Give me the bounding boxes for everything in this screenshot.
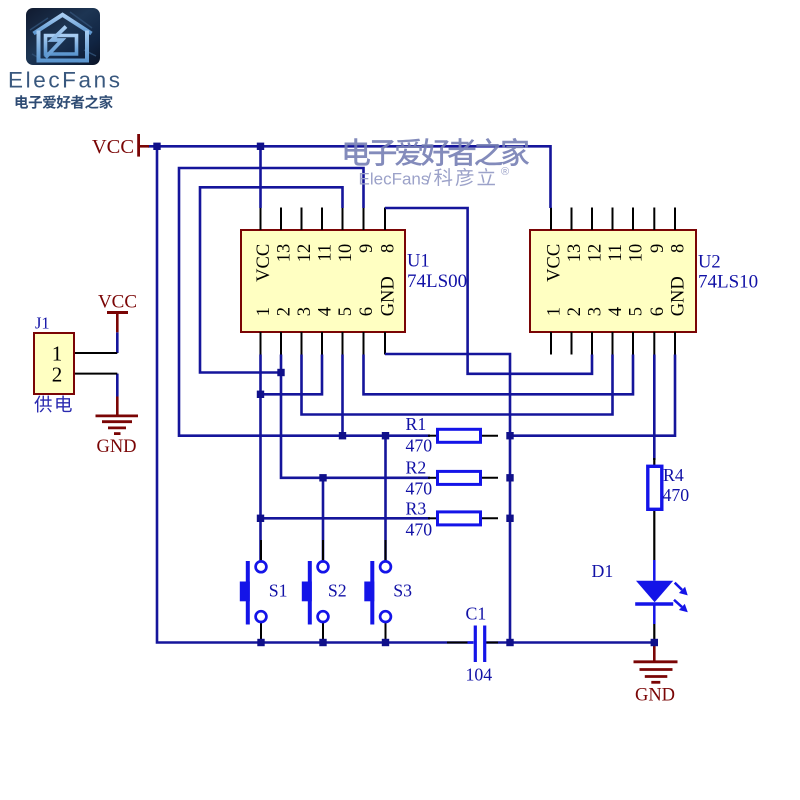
- svg-text:C1: C1: [466, 604, 487, 624]
- svg-text:5: 5: [627, 307, 647, 316]
- wire J1 pin1 to VCC: [116, 332, 119, 353]
- wire U1 pin2 to R2 left: [281, 355, 430, 478]
- wire J1 pin2 to GND: [116, 374, 119, 397]
- U1 top pin stub 10: [342, 208, 344, 231]
- svg-text:13: 13: [275, 244, 295, 262]
- U1 top pin stub 8: [384, 208, 386, 231]
- U2 bottom pin stub 1: [550, 332, 552, 355]
- GND symbol at D1: [653, 643, 656, 662]
- svg-text:470: 470: [406, 520, 433, 540]
- junction VCC rail left: [153, 143, 160, 150]
- svg-text:1: 1: [254, 307, 274, 316]
- svg-text:VCC: VCC: [92, 136, 134, 158]
- U2 top pin stub VCC: [550, 208, 552, 231]
- U2 bottom pin stub GND: [674, 332, 676, 355]
- resistor R4: [648, 466, 662, 509]
- svg-text:GND: GND: [379, 276, 399, 316]
- U2 top pin stub 9: [653, 208, 655, 231]
- svg-text:6: 6: [357, 307, 377, 316]
- junction D1 bus: [651, 639, 658, 646]
- junction pin10-pin2: [277, 369, 284, 376]
- S1 top pin: [260, 540, 262, 562]
- junction VCC rail U1: [257, 143, 264, 150]
- logo house icon: [34, 15, 92, 34]
- junction pin1-pin4: [257, 391, 264, 398]
- svg-text:GND: GND: [96, 437, 136, 457]
- U1 top pin stub 9: [363, 208, 365, 231]
- svg-text:2: 2: [565, 307, 585, 316]
- C1 left pin: [447, 642, 474, 644]
- D1 light arrow 1: [675, 583, 682, 590]
- IC U2 74LS10: [530, 230, 696, 332]
- junction S1 bus: [257, 639, 264, 646]
- svg-text:12: 12: [586, 244, 606, 262]
- svg-text:R2: R2: [406, 458, 427, 478]
- svg-text:5: 5: [336, 307, 356, 316]
- svg-text:104: 104: [466, 665, 493, 685]
- R1 right pin: [481, 435, 499, 437]
- U2 top pin stub 11: [612, 208, 614, 231]
- wire S2 drop: [322, 478, 325, 562]
- switch S1: [256, 561, 267, 572]
- J1 pin1: [74, 352, 117, 354]
- junction C1 right: [506, 639, 513, 646]
- junction pin5-R1: [339, 432, 346, 439]
- wire U1 GND to ground bus: [385, 354, 510, 643]
- svg-text:VCC: VCC: [254, 244, 274, 282]
- junction R3 right: [506, 515, 513, 522]
- U1 top pin stub 12: [301, 208, 303, 231]
- wire U1 pin3 to U2 pin4: [302, 355, 613, 415]
- U2 bottom pin stub 2: [571, 332, 573, 355]
- svg-text:470: 470: [663, 485, 690, 505]
- wire U1 pin1 down to S1: [259, 355, 262, 562]
- svg-text:3: 3: [295, 307, 315, 316]
- switch S3: [380, 561, 391, 572]
- svg-text:8: 8: [669, 244, 689, 253]
- S3 bottom pin: [385, 622, 387, 643]
- D1 cathode pin: [653, 624, 655, 643]
- U2 top pin stub 8: [674, 208, 676, 231]
- wire R3 left from pin1 column: [261, 517, 431, 520]
- J1 label chinese gongdian: [34, 396, 51, 413]
- svg-text:VCC: VCC: [545, 244, 565, 282]
- wire U1 pin9 to R1 left: [179, 168, 430, 436]
- wire VCC drop to U1 VCC: [259, 146, 262, 208]
- wire C1 right to D1 ground node: [485, 641, 655, 644]
- svg-text:4: 4: [606, 307, 626, 316]
- S2 bottom pin: [322, 622, 324, 643]
- svg-text:8: 8: [379, 244, 399, 253]
- C1 right pin: [487, 642, 499, 644]
- junction R2 right: [506, 474, 513, 481]
- U2 bottom pin stub 6: [653, 332, 655, 355]
- svg-text:/: /: [427, 170, 432, 189]
- svg-text:ElecFans: ElecFans: [359, 170, 430, 189]
- capacitor C1: [474, 626, 477, 663]
- LED D1: [636, 581, 673, 603]
- U1 bottom pin stub 1: [260, 332, 262, 355]
- svg-text:GND: GND: [669, 276, 689, 316]
- svg-text:R3: R3: [406, 499, 427, 519]
- svg-text:4: 4: [316, 307, 336, 316]
- R3 right pin: [481, 517, 499, 519]
- wire S3 drop: [384, 436, 387, 562]
- resistor R1: [438, 429, 481, 442]
- resistor R2: [438, 471, 481, 484]
- U1 top pin stub 11: [321, 208, 323, 231]
- J1 pin2: [74, 373, 117, 375]
- U2 top pin stub 13: [571, 208, 573, 231]
- svg-text:1: 1: [545, 307, 565, 316]
- svg-text:10: 10: [627, 244, 647, 262]
- U2 top pin stub 10: [632, 208, 634, 231]
- wire D1 cathode down: [653, 604, 656, 624]
- U2 top pin stub 12: [591, 208, 593, 231]
- svg-text:®: ®: [501, 166, 509, 178]
- wire U1 pin6 to U2 pin5: [364, 355, 634, 395]
- svg-text:R4: R4: [663, 465, 684, 485]
- R4 bottom pin: [653, 510, 655, 561]
- wire U1 pin5 to R1 row: [341, 355, 344, 436]
- svg-text:13: 13: [565, 244, 585, 262]
- U2 bottom pin stub 3: [591, 332, 593, 355]
- svg-text:2: 2: [52, 363, 63, 387]
- wire VCC left rail to bottom bus: [157, 146, 474, 642]
- R1 left pin: [428, 435, 438, 437]
- VCC power symbol at J1: [107, 311, 128, 314]
- svg-text:74LS00: 74LS00: [407, 271, 467, 292]
- junction R3 tee: [257, 515, 264, 522]
- junction S2 bus: [319, 639, 326, 646]
- wire R4 to D1: [653, 560, 656, 581]
- wire U1 pin4 to pin1 column: [261, 355, 323, 395]
- D1 light arrow 2: [674, 600, 682, 607]
- U2 bottom pin stub 5: [632, 332, 634, 355]
- switch S2: [318, 561, 329, 572]
- U1 bottom pin stub 4: [321, 332, 323, 355]
- svg-text:S1: S1: [269, 581, 288, 601]
- svg-text:U2: U2: [698, 253, 721, 273]
- svg-text:ElecFans: ElecFans: [8, 68, 123, 93]
- svg-text:S2: S2: [328, 581, 347, 601]
- R4 top pin: [653, 458, 655, 466]
- logo text chinese: [16, 95, 29, 108]
- S1 bottom pin: [260, 622, 262, 643]
- R3 left pin: [428, 517, 438, 519]
- svg-text:3: 3: [586, 307, 606, 316]
- svg-text:J1: J1: [35, 314, 50, 333]
- connector J1: [34, 333, 74, 394]
- svg-text:470: 470: [406, 436, 433, 456]
- U1 bottom pin stub 5: [342, 332, 344, 355]
- junction S3-R1 row: [382, 432, 389, 439]
- U1 top pin stub 13: [280, 208, 282, 231]
- svg-text:6: 6: [648, 307, 668, 316]
- U1 bottom pin stub 3: [301, 332, 303, 355]
- svg-text:9: 9: [648, 244, 668, 253]
- resistor R3: [438, 512, 481, 525]
- R2 right pin: [481, 477, 499, 479]
- junction S2-R2 row: [319, 474, 326, 481]
- IC U1 74LS00: [241, 230, 405, 332]
- wire U1 pin10 to pin2 column: [200, 187, 343, 372]
- junction R1 right: [506, 432, 513, 439]
- wire U1 pin8 to U2 pin3: [385, 208, 592, 374]
- svg-text:12: 12: [295, 244, 315, 262]
- svg-text:470: 470: [406, 479, 433, 499]
- svg-text:VCC: VCC: [98, 292, 137, 313]
- GND symbol at J1: [116, 397, 119, 416]
- U1 bottom pin stub GND: [384, 332, 386, 355]
- R2 left pin: [428, 477, 438, 479]
- wire U2 pin6 to R4: [653, 355, 656, 461]
- S2 top pin: [322, 540, 324, 562]
- svg-text:U1: U1: [407, 252, 430, 272]
- wire U2 GND to ground column: [510, 355, 675, 436]
- S3 top pin: [385, 540, 387, 562]
- U1 bottom pin stub 6: [363, 332, 365, 355]
- svg-text:74LS10: 74LS10: [698, 272, 758, 293]
- svg-text:9: 9: [357, 244, 377, 253]
- svg-text:11: 11: [606, 244, 626, 262]
- svg-text:2: 2: [275, 307, 295, 316]
- svg-text:11: 11: [316, 244, 336, 262]
- U1 bottom pin stub 2: [280, 332, 282, 355]
- wire VCC rail: [148, 146, 551, 208]
- VCC power symbol top-left: [137, 134, 140, 157]
- U2 bottom pin stub 4: [612, 332, 614, 355]
- svg-text:R1: R1: [406, 414, 427, 434]
- svg-text:S3: S3: [393, 581, 412, 601]
- U1 top pin stub VCC: [260, 208, 262, 231]
- ElecFans logo badge: [26, 8, 100, 65]
- watermark line 1: [345, 138, 370, 165]
- svg-text:GND: GND: [635, 686, 675, 706]
- svg-text:D1: D1: [592, 561, 614, 581]
- junction S3 bus: [382, 639, 389, 646]
- svg-text:10: 10: [336, 244, 356, 262]
